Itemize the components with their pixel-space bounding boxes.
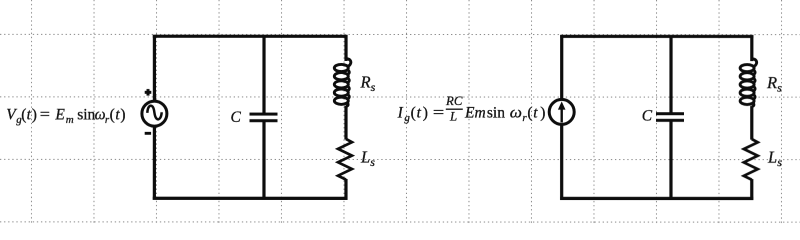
label Ig(t) = RC/L Em sin wr(t) bbox=[397, 104, 445, 124]
wire right circuit left upper bbox=[560, 35, 563, 100]
current source I1 bbox=[549, 99, 574, 124]
wire left circuit left lower bbox=[153, 126, 156, 200]
svg-text:Rs: Rs bbox=[360, 72, 376, 94]
resistor Ls left (zigzag) bbox=[338, 139, 352, 180]
wire left circuit right upper bbox=[344, 35, 347, 61]
wire right circuit bottom bbox=[560, 197, 753, 200]
svg-text:L: L bbox=[449, 110, 457, 124]
svg-text:=: = bbox=[40, 106, 50, 123]
svg-text:t: t bbox=[417, 104, 422, 121]
svg-text:RC: RC bbox=[445, 94, 463, 108]
wire right circuit middle upper bbox=[669, 35, 672, 113]
svg-text:ω: ω bbox=[510, 104, 522, 121]
svg-text:sin: sin bbox=[487, 104, 505, 121]
svg-text:): ) bbox=[32, 106, 37, 123]
voltage source V1 minus sign bbox=[145, 132, 151, 135]
svg-text:sin: sin bbox=[77, 106, 95, 123]
wire right circuit right lower bbox=[750, 179, 753, 200]
svg-text:Rs: Rs bbox=[766, 73, 782, 95]
svg-text:): ) bbox=[540, 104, 545, 121]
svg-text:E: E bbox=[54, 106, 65, 123]
wire right circuit left lower bbox=[560, 124, 563, 200]
svg-text:(: ( bbox=[411, 104, 416, 121]
svg-text:(: ( bbox=[110, 106, 115, 123]
inductor coil Rs left bbox=[334, 59, 351, 107]
label Vg(t) = Em sin wr(t) bbox=[6, 106, 125, 126]
capacitor C right bbox=[656, 114, 684, 121]
svg-text:): ) bbox=[423, 104, 428, 121]
svg-text:t: t bbox=[533, 104, 538, 121]
inductor coil Rs right bbox=[740, 59, 757, 107]
svg-text:Ls: Ls bbox=[767, 148, 782, 170]
svg-text:(: ( bbox=[527, 104, 532, 121]
wire left circuit middle lower bbox=[262, 121, 265, 200]
svg-text:C: C bbox=[642, 108, 653, 125]
svg-text:Ls: Ls bbox=[360, 147, 375, 169]
resistor Ls right (zigzag) bbox=[744, 139, 758, 180]
svg-text:Em: Em bbox=[464, 104, 486, 121]
svg-text:C: C bbox=[230, 109, 241, 126]
wire left circuit right lower bbox=[344, 179, 347, 200]
svg-text:I: I bbox=[397, 104, 404, 121]
voltage source V1 bbox=[142, 101, 167, 126]
svg-text:=: = bbox=[433, 104, 444, 121]
wire left circuit right middle bbox=[344, 106, 347, 140]
wire right circuit right upper bbox=[750, 35, 753, 61]
wire left circuit bottom bbox=[153, 197, 348, 200]
wire left circuit top bbox=[153, 35, 348, 38]
wire left circuit left upper bbox=[153, 35, 156, 102]
voltage source V1 plus sign bbox=[145, 89, 152, 96]
svg-text:m: m bbox=[66, 114, 74, 126]
wire right circuit right middle bbox=[750, 106, 753, 140]
capacitor C left bbox=[249, 114, 277, 121]
wire left circuit middle upper bbox=[262, 35, 265, 114]
svg-text:g: g bbox=[404, 112, 410, 124]
wire right circuit top bbox=[560, 35, 753, 38]
svg-text:): ) bbox=[120, 106, 125, 123]
wire right circuit middle lower bbox=[669, 121, 672, 200]
